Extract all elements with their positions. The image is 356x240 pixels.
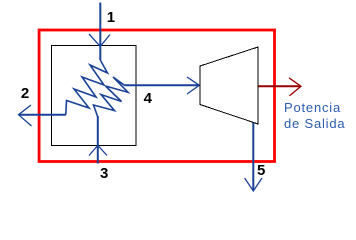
label 3 [100, 165, 108, 182]
wire: stream 3 inlet [97, 116, 99, 164]
power output text [284, 100, 345, 133]
arrowhead stream 4 [187, 77, 199, 94]
arrowhead stream 1 [89, 34, 110, 46]
coil A (stream 1 to 2) [66, 60, 108, 115]
wire: stream 2 outlet [19, 114, 66, 116]
label 4 [144, 90, 152, 107]
label 1 [107, 9, 115, 26]
arrowhead stream 3 [89, 145, 107, 155]
power output arrow (dark red) [259, 85, 301, 87]
power arrowhead [289, 78, 301, 96]
heat exchanger box [51, 46, 136, 146]
wire: stream 4 to turbine [125, 84, 200, 86]
label 5 [257, 162, 265, 179]
arrowhead stream 5 [245, 178, 262, 191]
wire: stream 5 from turbine [252, 123, 254, 191]
label 2 [21, 85, 29, 102]
arrowhead stream 2 [19, 105, 32, 126]
wire: stream 1 inlet [99, 3, 101, 61]
red control-volume boundary [39, 30, 274, 162]
coil B (stream 3 to 4) [94, 77, 129, 117]
turbine [200, 47, 258, 124]
